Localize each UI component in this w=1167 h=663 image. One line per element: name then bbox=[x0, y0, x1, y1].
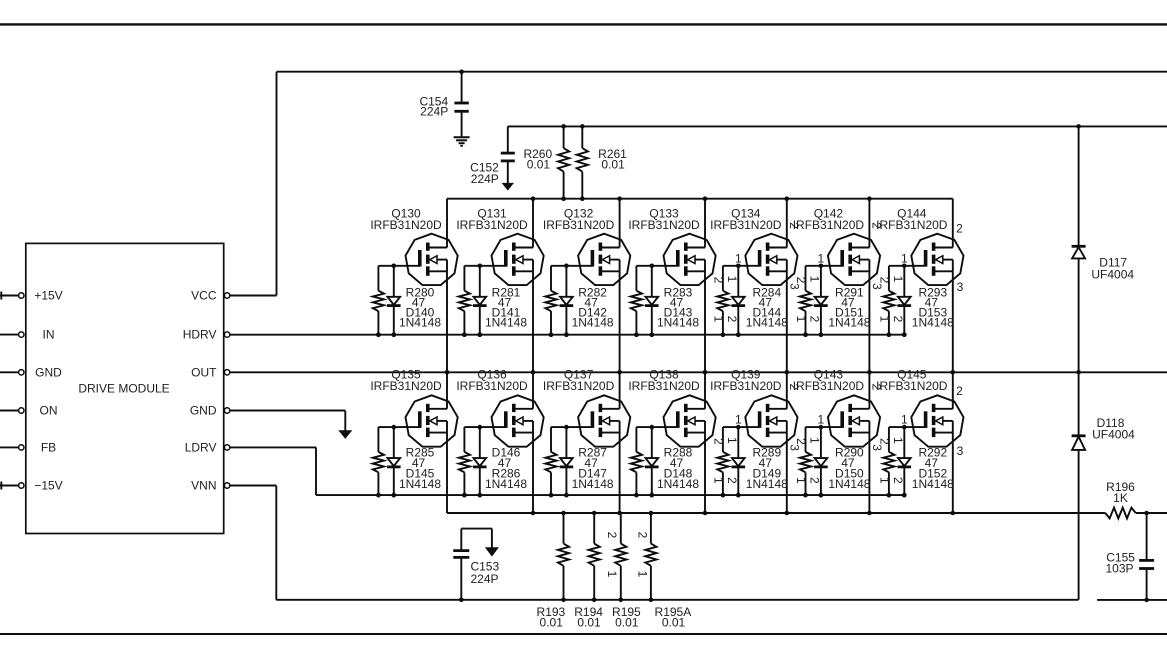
transistor Q144 bbox=[876, 199, 963, 373]
wire gate node Q142 bbox=[806, 264, 843, 269]
svg-text:2: 2 bbox=[877, 277, 891, 284]
svg-text:1: 1 bbox=[807, 276, 821, 283]
diode D118 bbox=[1072, 372, 1136, 600]
resistor R291 bbox=[800, 266, 871, 337]
wire VCC rail bbox=[230, 69, 1167, 295]
wire gate node Q136 bbox=[464, 425, 505, 430]
svg-text:1N4148: 1N4148 bbox=[572, 315, 614, 329]
resistor R260 bbox=[523, 126, 569, 201]
svg-text:1: 1 bbox=[794, 477, 808, 484]
svg-text:1: 1 bbox=[891, 437, 905, 444]
transistor Q142 bbox=[793, 199, 880, 373]
svg-text:IRFB31N20D: IRFB31N20D bbox=[370, 218, 442, 232]
transistor Q132 bbox=[543, 199, 630, 373]
wire source bus bbox=[447, 511, 1079, 516]
transistor Q137 bbox=[543, 368, 630, 513]
svg-text:1: 1 bbox=[635, 571, 649, 578]
svg-text:0.01: 0.01 bbox=[601, 158, 625, 172]
svg-text:1: 1 bbox=[735, 251, 742, 265]
resistor R280 bbox=[373, 266, 442, 337]
svg-text:1: 1 bbox=[725, 437, 739, 444]
svg-text:1: 1 bbox=[818, 251, 825, 265]
diode D153 bbox=[898, 266, 912, 337]
resistor R288 bbox=[631, 427, 700, 497]
wire LDRV bus bbox=[230, 447, 904, 495]
svg-text:IRFB31N20D: IRFB31N20D bbox=[456, 379, 528, 393]
wire gate node Q137 bbox=[551, 425, 592, 430]
svg-text:1N4148: 1N4148 bbox=[657, 315, 699, 329]
svg-text:1N4148: 1N4148 bbox=[746, 315, 788, 329]
svg-text:IRFB31N20D: IRFB31N20D bbox=[543, 379, 615, 393]
wire pin +15V bbox=[0, 292, 24, 300]
wire HDRV bus bbox=[230, 334, 904, 336]
svg-text:1N4148: 1N4148 bbox=[485, 315, 527, 329]
svg-text:224P: 224P bbox=[420, 105, 448, 119]
svg-text:1: 1 bbox=[605, 571, 619, 578]
resistor R196 bbox=[1079, 480, 1167, 518]
pin numbers Q134 bbox=[711, 222, 801, 323]
transistor Q143 bbox=[793, 368, 880, 513]
IC U1 DRIVE MODULE bbox=[26, 243, 224, 533]
svg-text:0.01: 0.01 bbox=[527, 158, 551, 172]
svg-text:IN: IN bbox=[43, 328, 55, 342]
transistor Q133 bbox=[628, 199, 715, 373]
svg-text:2: 2 bbox=[711, 438, 725, 445]
resistor R195 bbox=[605, 513, 641, 630]
resistor R289 bbox=[717, 427, 788, 497]
svg-text:VNN: VNN bbox=[191, 479, 216, 493]
resistor R293 bbox=[883, 266, 954, 337]
svg-text:IRFB31N20D: IRFB31N20D bbox=[876, 218, 948, 232]
svg-text:UF4004: UF4004 bbox=[1091, 268, 1134, 282]
resistor R284 bbox=[717, 266, 788, 337]
transistor Q136 bbox=[456, 368, 543, 513]
svg-text:0.01: 0.01 bbox=[540, 616, 564, 630]
capacitor C154 bbox=[419, 72, 468, 138]
svg-text:IRFB31N20D: IRFB31N20D bbox=[628, 218, 700, 232]
wire gate node Q143 bbox=[806, 425, 843, 430]
svg-text:IRFB31N20D: IRFB31N20D bbox=[543, 218, 615, 232]
svg-text:1N4148: 1N4148 bbox=[485, 477, 527, 491]
power arrow (C153) bbox=[485, 547, 499, 556]
svg-text:1: 1 bbox=[877, 477, 891, 484]
svg-text:2: 2 bbox=[635, 532, 649, 539]
wire gate node Q134 bbox=[723, 264, 760, 269]
svg-text:1: 1 bbox=[725, 276, 739, 283]
svg-text:1: 1 bbox=[818, 413, 825, 427]
svg-text:−15V: −15V bbox=[34, 479, 62, 493]
resistor R261 bbox=[577, 126, 627, 201]
pin OUT bbox=[224, 370, 229, 375]
svg-text:ON: ON bbox=[40, 404, 58, 418]
pin numbers Q139 bbox=[711, 383, 801, 484]
resistor R281 bbox=[459, 266, 528, 337]
transistor Q138 bbox=[628, 368, 715, 513]
svg-text:IRFB31N20D: IRFB31N20D bbox=[793, 379, 865, 393]
svg-text:OUT: OUT bbox=[191, 365, 217, 379]
svg-text:3: 3 bbox=[957, 444, 964, 458]
resistor R290 bbox=[800, 427, 871, 497]
svg-text:3: 3 bbox=[787, 283, 801, 290]
pin LDRV bbox=[224, 445, 229, 450]
svg-text:2: 2 bbox=[956, 221, 963, 235]
svg-text:2: 2 bbox=[725, 477, 739, 484]
svg-text:2: 2 bbox=[891, 316, 905, 323]
resistor R283 bbox=[631, 266, 700, 337]
svg-text:2: 2 bbox=[877, 438, 891, 445]
svg-text:1: 1 bbox=[891, 276, 905, 283]
ground arrow (GND) bbox=[338, 430, 352, 439]
wire pin ON bbox=[0, 408, 24, 413]
resistor R285 bbox=[373, 427, 442, 497]
diode D146 bbox=[473, 427, 487, 497]
transistor Q130 bbox=[370, 199, 457, 373]
svg-text:1N4148: 1N4148 bbox=[399, 477, 441, 491]
svg-text:LDRV: LDRV bbox=[185, 440, 217, 454]
wire drive rail bbox=[508, 124, 1167, 129]
svg-text:+15V: +15V bbox=[34, 289, 62, 303]
svg-text:UF4004: UF4004 bbox=[1092, 428, 1135, 442]
diode D151 bbox=[814, 266, 828, 337]
capacitor C152 bbox=[470, 126, 515, 185]
svg-text:1N4148: 1N4148 bbox=[828, 315, 870, 329]
diode D150 bbox=[814, 427, 828, 497]
svg-text:224P: 224P bbox=[470, 572, 498, 586]
svg-text:3: 3 bbox=[787, 444, 801, 451]
resistor R195A bbox=[635, 513, 691, 630]
svg-text:IRFB31N20D: IRFB31N20D bbox=[710, 379, 782, 393]
pin GND bbox=[224, 408, 229, 413]
svg-text:0.01: 0.01 bbox=[577, 616, 601, 630]
wire GND bbox=[230, 411, 345, 431]
transistor Q135 bbox=[370, 368, 457, 513]
svg-text:1: 1 bbox=[901, 413, 908, 427]
svg-text:GND: GND bbox=[190, 404, 217, 418]
diode D144 bbox=[732, 266, 746, 337]
pin HDRV bbox=[224, 332, 229, 337]
pin VCC bbox=[224, 293, 229, 298]
svg-text:1N4148: 1N4148 bbox=[912, 315, 954, 329]
resistor R282 bbox=[545, 266, 614, 337]
transistor Q139 bbox=[710, 368, 797, 513]
pin numbers Q144 bbox=[877, 221, 963, 322]
svg-text:1K: 1K bbox=[1113, 491, 1128, 505]
svg-text:2: 2 bbox=[807, 316, 821, 323]
svg-text:2: 2 bbox=[794, 277, 808, 284]
svg-text:2: 2 bbox=[794, 438, 808, 445]
diode D142 bbox=[560, 266, 574, 337]
capacitor C153 bbox=[453, 529, 499, 600]
svg-text:224P: 224P bbox=[471, 172, 499, 186]
svg-text:2: 2 bbox=[605, 532, 619, 539]
wire gate node Q132 bbox=[551, 264, 592, 269]
svg-text:1: 1 bbox=[794, 316, 808, 323]
wire VNN stub bbox=[1097, 598, 1167, 603]
capacitor C155 bbox=[1105, 513, 1154, 600]
svg-text:1: 1 bbox=[901, 251, 908, 265]
diode D149 bbox=[732, 427, 746, 497]
pin numbers Q142 bbox=[794, 222, 884, 323]
svg-text:1: 1 bbox=[711, 316, 725, 323]
wire gate node Q144 bbox=[889, 264, 926, 269]
wire pin −15V bbox=[0, 482, 24, 490]
svg-text:GND: GND bbox=[35, 365, 62, 379]
svg-text:IRFB31N20D: IRFB31N20D bbox=[628, 379, 700, 393]
wire gate node Q138 bbox=[636, 425, 677, 430]
svg-text:IRFB31N20D: IRFB31N20D bbox=[710, 218, 782, 232]
diode D140 bbox=[387, 266, 401, 337]
svg-text:2: 2 bbox=[956, 384, 963, 398]
junctions gate buses bbox=[376, 332, 907, 497]
diode D147 bbox=[560, 427, 574, 497]
svg-text:2: 2 bbox=[711, 277, 725, 284]
ground (C154) bbox=[454, 137, 470, 146]
resistor R193 bbox=[537, 513, 570, 630]
svg-text:DRIVE MODULE: DRIVE MODULE bbox=[78, 382, 169, 396]
svg-text:1: 1 bbox=[807, 437, 821, 444]
svg-text:1N4148: 1N4148 bbox=[657, 477, 699, 491]
resistor R286 bbox=[459, 427, 528, 497]
wire OUT bus bbox=[230, 370, 1167, 375]
diode D141 bbox=[473, 266, 487, 337]
svg-text:2: 2 bbox=[807, 477, 821, 484]
diode D152 bbox=[898, 427, 912, 497]
diode D117 bbox=[1072, 126, 1135, 372]
transistor Q131 bbox=[456, 199, 543, 373]
svg-text:0.01: 0.01 bbox=[662, 616, 686, 630]
svg-text:1N4148: 1N4148 bbox=[828, 477, 870, 491]
wire pin FB bbox=[0, 445, 24, 450]
svg-text:0.01: 0.01 bbox=[615, 616, 639, 630]
svg-text:HDRV: HDRV bbox=[183, 328, 217, 342]
svg-text:1: 1 bbox=[877, 316, 891, 323]
svg-text:IRFB31N20D: IRFB31N20D bbox=[456, 218, 528, 232]
wire gate node Q145 bbox=[889, 425, 926, 430]
svg-text:IRFB31N20D: IRFB31N20D bbox=[793, 218, 865, 232]
svg-text:3: 3 bbox=[870, 444, 884, 451]
svg-text:1: 1 bbox=[735, 413, 742, 427]
resistor R287 bbox=[545, 427, 614, 497]
wire gate node Q139 bbox=[723, 425, 760, 430]
wire pin IN bbox=[0, 332, 24, 337]
svg-text:103P: 103P bbox=[1105, 562, 1133, 576]
wire drain bus bbox=[447, 196, 953, 201]
transistor Q145 bbox=[876, 368, 963, 513]
svg-text:IRFB31N20D: IRFB31N20D bbox=[370, 379, 442, 393]
svg-text:1N4148: 1N4148 bbox=[912, 477, 954, 491]
svg-text:3: 3 bbox=[957, 280, 964, 294]
resistor R194 bbox=[574, 513, 603, 630]
diode D145 bbox=[387, 427, 401, 497]
wire pin GND bbox=[0, 370, 24, 375]
diode D148 bbox=[645, 427, 659, 497]
power arrow (C152) bbox=[502, 183, 514, 191]
svg-text:1N4148: 1N4148 bbox=[572, 477, 614, 491]
wire VNN bus bbox=[230, 486, 1079, 603]
pin numbers Q143 bbox=[794, 383, 884, 484]
wire gate node Q131 bbox=[464, 264, 505, 269]
svg-text:FB: FB bbox=[41, 440, 56, 454]
resistor R292 bbox=[883, 427, 954, 497]
svg-text:3: 3 bbox=[870, 283, 884, 290]
transistor Q134 bbox=[710, 199, 797, 373]
svg-text:1N4148: 1N4148 bbox=[399, 315, 441, 329]
svg-text:IRFB31N20D: IRFB31N20D bbox=[876, 379, 948, 393]
svg-text:2: 2 bbox=[891, 477, 905, 484]
svg-text:1: 1 bbox=[711, 477, 725, 484]
wire gate node Q130 bbox=[378, 264, 419, 269]
pin VNN bbox=[224, 483, 229, 488]
wire gate node Q133 bbox=[636, 264, 677, 269]
svg-text:2: 2 bbox=[725, 316, 739, 323]
svg-text:1N4148: 1N4148 bbox=[746, 477, 788, 491]
diode D143 bbox=[645, 266, 659, 337]
pin numbers Q145 bbox=[877, 384, 963, 484]
wire gate node Q135 bbox=[378, 425, 419, 430]
svg-text:VCC: VCC bbox=[191, 289, 217, 303]
